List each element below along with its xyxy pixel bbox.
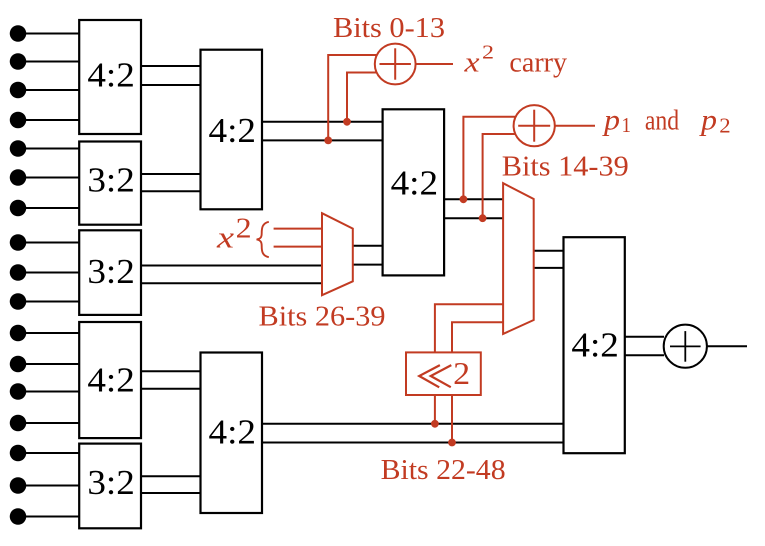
wires B2 to B6: [141, 174, 201, 191]
svg-text:p: p: [602, 104, 620, 137]
mux M1 (x-squared select): [322, 213, 353, 295]
svg-text:carry: carry: [509, 47, 567, 78]
wire adder A2 output: [555, 125, 595, 127]
shifter U1 (shift left 2): [406, 352, 481, 395]
svg-text:4:2: 4:2: [87, 56, 135, 95]
junction dot on lower B6-B8 wire: [324, 137, 332, 145]
input dot 3: [10, 82, 79, 99]
svg-text:Bits 0-13: Bits 0-13: [333, 12, 445, 44]
adder A1 (x-squared carry): [375, 44, 416, 85]
wire mux M2 upper red input from shifter: [435, 304, 503, 352]
junction dot on upper B6-B8 wire: [343, 118, 351, 126]
adder A3 (final sum): [664, 325, 707, 368]
input dot 14: [10, 415, 79, 432]
adder A2 (p1 and p2): [514, 105, 555, 146]
junction dot on upper B8-M2 wire: [460, 195, 468, 203]
input dot 4: [10, 112, 79, 129]
input dot 5: [10, 140, 79, 157]
wires B8 to mux M2: [444, 199, 503, 218]
svg-text:x: x: [216, 220, 235, 255]
svg-text:4:2: 4:2: [209, 111, 257, 150]
svg-text:2: 2: [236, 214, 252, 245]
svg-text:4:2: 4:2: [87, 361, 135, 400]
input dot 11: [10, 325, 79, 342]
wire adder A3 output: [707, 345, 747, 347]
input dot 17: [10, 508, 79, 525]
mux M2: [503, 183, 534, 334]
input dot 10: [10, 293, 79, 310]
svg-text:2: 2: [453, 355, 470, 391]
wire x-squared inputs to mux M1: [274, 229, 322, 247]
wire shifter tap to lower B7-B9 wire: [451, 395, 453, 443]
compressor B8 4:2: [383, 109, 445, 275]
wires B7 to B9: [262, 424, 564, 443]
svg-text:4:2: 4:2: [391, 164, 439, 203]
svg-text:3:2: 3:2: [87, 252, 135, 291]
compressor B3 3:2: [79, 230, 141, 315]
input dot 12: [10, 356, 79, 373]
wires B4 to B7: [141, 371, 201, 388]
wire tap to adder A1 upper: [328, 55, 377, 140]
svg-text:and: and: [645, 106, 679, 137]
label x-squared carry: [463, 42, 567, 79]
wires B5 to B7: [141, 476, 201, 493]
wires mux M1 to B8: [353, 246, 383, 265]
input dot 2: [10, 53, 79, 70]
wire tap to adder A2 lower: [483, 134, 516, 218]
svg-text:Bits 14-39: Bits 14-39: [502, 151, 629, 183]
svg-text:4:2: 4:2: [209, 413, 257, 452]
wires mux M2 to B9: [534, 251, 564, 268]
junction dot on lower B7-B9 wire: [448, 439, 456, 447]
compressor B2 3:2: [79, 142, 141, 225]
svg-text:x: x: [463, 47, 480, 78]
label p1 and p2: [602, 104, 731, 138]
wires B3 to mux M1: [141, 266, 322, 284]
compressor B1 4:2: [79, 20, 141, 134]
svg-text:2: 2: [719, 114, 730, 138]
wires B1 to B6: [141, 66, 201, 85]
input dot 1: [10, 25, 79, 42]
input dot 13: [10, 383, 79, 400]
svg-text:3:2: 3:2: [87, 463, 135, 502]
input dot 8: [10, 234, 79, 251]
wires B6 to B8: [262, 122, 383, 141]
input dot 9: [10, 264, 79, 281]
compressor B4 4:2: [79, 322, 141, 438]
svg-text:p: p: [699, 104, 717, 137]
input dot 7: [10, 200, 79, 217]
compressor B6 4:2: [201, 50, 263, 210]
junction dot on lower B8-M2 wire: [479, 214, 487, 222]
svg-text:Bits 26-39: Bits 26-39: [259, 300, 386, 332]
wires B9 to adder A3: [625, 337, 664, 356]
junction dot on upper B7-B9 wire: [431, 420, 439, 428]
wire tap to adder A1 lower: [347, 73, 377, 122]
wire mux M2 lower red input from shifter: [452, 322, 503, 352]
wire shifter tap to upper B7-B9 wire: [434, 395, 436, 424]
label x-squared brace: [216, 214, 269, 258]
wire tap to adder A2 upper: [463, 117, 515, 200]
wire adder A1 output: [416, 63, 453, 65]
svg-text:Bits 22-48: Bits 22-48: [381, 454, 506, 486]
input dot 6: [10, 169, 79, 186]
svg-text:1: 1: [622, 113, 632, 137]
svg-text:3:2: 3:2: [87, 160, 135, 199]
input dot 15: [10, 445, 79, 462]
compressor B9 4:2: [564, 237, 625, 453]
compressor B5 3:2: [79, 444, 141, 529]
input dot 16: [10, 477, 79, 494]
svg-text:4:2: 4:2: [571, 325, 619, 364]
svg-text:2: 2: [482, 42, 494, 64]
compressor B7 4:2: [201, 353, 263, 514]
